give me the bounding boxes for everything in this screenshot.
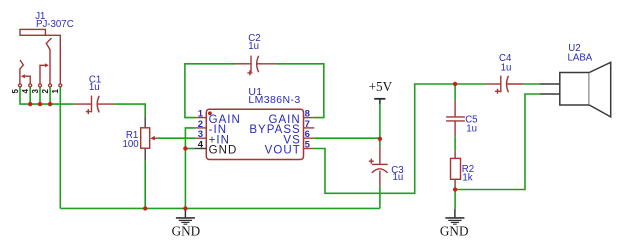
wire: U1 pin2 -IN down to ground bus <box>185 128 195 208</box>
capacitor C3 <box>369 146 388 186</box>
capacitor C4 <box>486 76 523 94</box>
capacitor C5 <box>446 100 465 136</box>
U1 pin 4 stub <box>194 148 206 150</box>
svg-text:+5V: +5V <box>369 79 393 94</box>
svg-text:VOUT: VOUT <box>265 145 301 157</box>
svg-text:GND: GND <box>209 145 238 157</box>
wire: +5V drop to VS node <box>379 104 381 138</box>
junction dot C5 tap <box>453 82 457 86</box>
wire: speaker return to R2/GND junction <box>455 94 539 190</box>
wire: R1 bottom to ground bus <box>144 161 146 209</box>
wire: C1 right to R1 top <box>114 104 145 116</box>
svg-text:PJ-307C: PJ-307C <box>36 19 74 30</box>
wire: ground bus <box>60 207 380 209</box>
wire: C3 bottom to ground bus <box>379 186 381 208</box>
U1 pin 6 stub <box>304 137 314 139</box>
junction dot R2 / speaker return / GND <box>453 187 457 191</box>
U1 pin 7 stub <box>304 127 315 129</box>
svg-text:1u: 1u <box>466 123 477 134</box>
wire: R1 wiper to U1 pin3 +IN <box>158 137 196 139</box>
wire: J1 pin4 drop <box>29 87 31 105</box>
wire: U1 pin4 GND stub to junction <box>185 148 194 150</box>
svg-text:1: 1 <box>51 89 60 94</box>
svg-text:1u: 1u <box>248 41 259 52</box>
wire: J1 pin1 down to ground bus <box>59 87 61 209</box>
U1 pin 8 stub <box>304 117 313 119</box>
junction dot GND tap on bus <box>183 206 187 210</box>
wire: U1 pin5 VOUT loop to C4 <box>313 84 486 193</box>
+5V supply symbol <box>374 98 385 100</box>
svg-text:4: 4 <box>21 89 30 94</box>
junction dot jack pin4 <box>28 102 32 106</box>
wire: U1 pin6 VS to +5V node <box>314 137 380 139</box>
wire: C4 right to speaker <box>523 83 539 85</box>
ground symbol GND (right) <box>445 209 464 224</box>
svg-text:1u: 1u <box>89 82 100 93</box>
wire: junction down to GND symbol <box>454 190 456 209</box>
svg-text:1k: 1k <box>462 172 472 183</box>
junction dot jack pin2 <box>48 102 52 106</box>
svg-text:GND: GND <box>172 224 201 239</box>
svg-text:LM386N-3: LM386N-3 <box>248 94 300 106</box>
capacitor C2 <box>237 56 276 76</box>
wire: J1 pin3 drop <box>39 87 41 105</box>
connector J1 pin4 arrow <box>25 76 31 84</box>
junction dot VS / +5V / C3 <box>378 137 382 141</box>
connector J1 pin3 arrow <box>40 65 46 84</box>
U1 pin 2 stub <box>196 127 207 129</box>
svg-text:3: 3 <box>31 89 40 94</box>
svg-text:100: 100 <box>123 139 140 150</box>
junction dot R1 bottom on bus <box>143 206 147 210</box>
connector J1 pin circles <box>19 84 62 87</box>
wire: C5 bottom to R2 top <box>454 136 456 150</box>
svg-text:5: 5 <box>11 89 20 94</box>
svg-text:2: 2 <box>41 89 50 94</box>
wire: C2 right down to U1 pin8 <box>275 64 324 118</box>
wire: C5 tap from VOUT net <box>454 84 456 100</box>
speaker U2 <box>540 62 611 117</box>
connector J1 pin numbers 5 4 3 2 1 <box>11 89 60 94</box>
resistor R2 <box>454 150 456 189</box>
capacitor C1 <box>74 96 114 115</box>
wire: J1 pin2 drop <box>49 87 51 105</box>
svg-text:5: 5 <box>305 140 311 151</box>
connector J1 body <box>20 29 60 84</box>
svg-text:1u: 1u <box>393 172 404 183</box>
ground symbol GND (left) <box>176 210 195 224</box>
svg-text:GND: GND <box>440 224 469 239</box>
junction dot -IN/GND pin4 <box>183 146 187 150</box>
svg-text:4: 4 <box>198 140 204 151</box>
wire: VS node down to C3 <box>379 138 381 146</box>
svg-text:1u: 1u <box>501 63 512 74</box>
wire: U1 pin1 GAIN up to C2 left <box>185 64 237 118</box>
potentiometer R1 <box>144 116 146 161</box>
svg-text:6: 6 <box>305 129 310 140</box>
connector J1 pin5 switch contact <box>20 60 23 84</box>
connector J1 pin2 switch contact <box>46 38 51 84</box>
svg-text:LABA: LABA <box>568 52 593 63</box>
U1 pin 3 stub <box>196 137 207 139</box>
junction dot jack pin3 <box>38 102 42 106</box>
U1 pin 1 stub <box>196 117 207 119</box>
op-amp U1 LM386N-3 body <box>206 109 303 159</box>
U1 pin 5 stub <box>304 148 313 150</box>
U1 pin1 marker dot <box>208 111 212 115</box>
wire: J1 pin5 down to signal line and across to C1 <box>20 87 74 105</box>
